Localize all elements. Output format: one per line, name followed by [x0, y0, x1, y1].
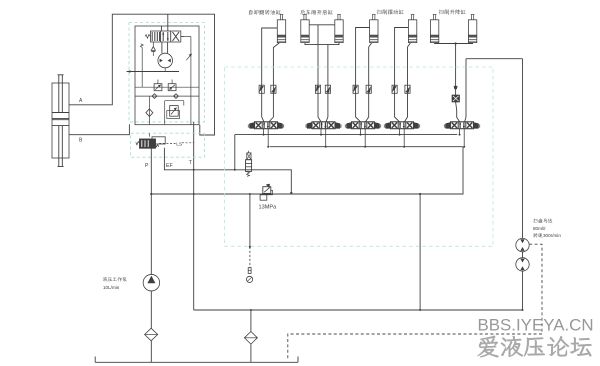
svg-text:13MPa: 13MPa	[259, 205, 278, 211]
tank	[95, 361, 298, 363]
return filter	[244, 332, 257, 345]
watermark chinese	[477, 336, 591, 358]
sweep motor 2	[516, 258, 529, 271]
right internal line with relief arrow	[190, 37, 192, 125]
throttle check g2a	[315, 85, 320, 93]
wire rod-side g3b	[395, 28, 409, 122]
gerotor metering unit	[158, 53, 173, 68]
wire cap link g4	[435, 42, 473, 45]
relief valve 13MPa	[263, 187, 271, 194]
label dump tipping cylinder	[249, 10, 281, 15]
throttle check g3a1	[353, 85, 358, 93]
wire pilot lines to top	[160, 26, 162, 31]
wire check to valve5	[456, 102, 460, 122]
solenoid valve V4 (swing R)	[391, 122, 414, 129]
dashed hydraulic station boundary	[225, 67, 493, 246]
gauge damper	[248, 268, 251, 274]
solenoid valve V1 (dump)	[255, 122, 278, 129]
wire EF line	[164, 148, 291, 193]
throttle check g3b1	[392, 85, 397, 93]
svg-text:EF: EF	[166, 163, 173, 169]
wire cylinder-B to steering unit L port	[69, 124, 129, 135]
solenoid valve V2 (rear door)	[312, 122, 335, 129]
label sweep motor	[533, 219, 552, 224]
relief check combo	[170, 106, 179, 117]
svg-text:BBS.IYEYA.CN: BBS.IYEYA.CN	[478, 316, 594, 335]
priority valve	[152, 137, 165, 144]
solenoid valve V3 (swing L)	[352, 122, 375, 129]
dashed boundary priority valve	[131, 133, 205, 157]
wire bus B (supply)	[270, 146, 463, 148]
pressure gauge line	[249, 194, 251, 247]
cylinder brush-lift left	[430, 20, 438, 43]
wire cap-side g1	[269, 43, 280, 122]
wire return filter to tank	[250, 344, 252, 362]
steering control valve spool	[151, 31, 181, 42]
throttle check g2b	[325, 85, 330, 93]
sweep motor 1	[516, 238, 529, 251]
svg-text:P: P	[145, 163, 149, 169]
wire rod-side g1	[262, 28, 278, 122]
cylinder brush-swing left	[370, 20, 378, 43]
wire busA to EF	[234, 135, 236, 170]
label pump	[103, 277, 127, 282]
steering cylinder (double rod)	[52, 83, 69, 158]
wire return drop	[250, 310, 252, 332]
wire motor line upper	[522, 59, 524, 239]
LS pilot line	[159, 142, 176, 144]
throttle check g1b	[271, 85, 276, 93]
svg-text:80ml/r: 80ml/r	[533, 226, 546, 231]
pressure gauge	[247, 276, 253, 282]
wire bus A (return)	[235, 134, 457, 136]
wire bottom tank line	[194, 309, 523, 311]
suction filter	[145, 328, 158, 341]
wire motor interlink	[522, 252, 524, 258]
throttle check g3a2	[366, 85, 371, 93]
wire valve5 right port riser	[465, 59, 466, 122]
wire cap link g2	[305, 43, 339, 45]
anticavitation check valves	[135, 95, 199, 97]
dashed boundary steering unit	[129, 23, 205, 122]
crossover relief right	[168, 84, 176, 91]
wire T line	[193, 122, 195, 310]
check valve L-line	[148, 96, 150, 125]
wire rod-side g3a	[356, 28, 370, 122]
wire supply bus	[151, 147, 463, 194]
wire cap-side g3b	[405, 43, 411, 122]
crossover relief left	[135, 86, 199, 88]
wire internal	[165, 100, 184, 102]
pilot operated check g4	[455, 44, 457, 96]
steering unit enclosure	[135, 26, 199, 125]
wire cap-side g3a	[366, 43, 372, 122]
cylinder dump tipping	[277, 20, 285, 43]
wire tank drop	[419, 194, 421, 310]
cylinder rear-door right	[335, 20, 343, 43]
cylinder brush-lift right	[468, 20, 476, 43]
wire filter to tank	[150, 341, 152, 363]
wire cylinder-A to steering unit R port	[69, 14, 215, 135]
wire spool to gerotor	[161, 42, 163, 53]
label brush lift cylinder	[439, 9, 466, 14]
cylinder brush-swing right	[408, 20, 416, 43]
svg-text:10L/min: 10L/min	[103, 285, 120, 290]
label rear door cylinder	[300, 10, 333, 15]
tank drain arrow	[127, 71, 179, 73]
throttle check g3b2	[405, 85, 410, 93]
solenoid valve V5 (brush lift/motor)	[451, 122, 474, 129]
svg-text:300r/min: 300r/min	[543, 233, 561, 238]
hydraulic pump	[143, 274, 160, 291]
label brush swing cylinder	[377, 9, 404, 14]
label motor speed	[533, 233, 542, 238]
wire pump suction	[150, 291, 152, 328]
wire rod link g2	[309, 24, 335, 26]
cylinder rear-door left	[301, 20, 309, 43]
dashed motor drain	[288, 244, 542, 360]
unloader solenoid cartridge	[248, 151, 250, 153]
check valve steering inlet	[152, 42, 154, 47]
wire P line	[150, 148, 152, 274]
left internal line with spring	[141, 48, 143, 88]
throttle check g1a	[259, 85, 264, 93]
svg-text:LS: LS	[176, 141, 182, 147]
wire motor line lower	[522, 271, 524, 310]
wire motor supply top	[466, 58, 523, 60]
